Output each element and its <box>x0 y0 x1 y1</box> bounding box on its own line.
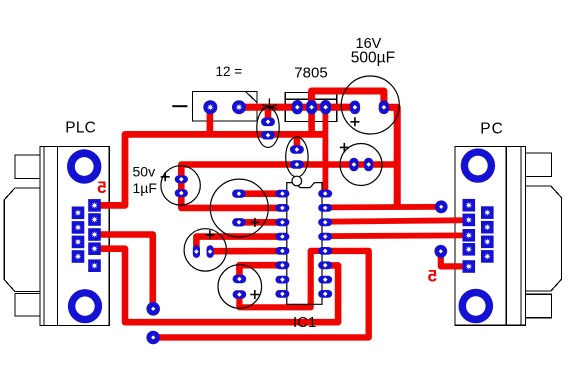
capacitor C3 right pad <box>364 158 373 172</box>
capacitor C5 top pad <box>175 175 188 183</box>
terminal block X1 12V outline <box>192 92 257 122</box>
connector J2 pad right 4 <box>481 250 494 263</box>
label 7805 <box>294 65 327 82</box>
capacitor C4 outline <box>218 265 262 309</box>
label 1uF <box>133 180 157 196</box>
connector J1 pad right 5 <box>88 259 101 272</box>
wire via B bottom route to IC1 pin5 right <box>153 251 369 338</box>
connector J1 pad left 4 <box>72 250 85 263</box>
capacitor C5 50v 1uF outline <box>161 166 200 205</box>
connector J2 pad left 5 <box>463 260 476 273</box>
wire C2 top pad to IC1 pin1 left <box>239 190 283 197</box>
diode D2 top pad <box>290 145 304 154</box>
IC U1 pin pad left 3 <box>275 218 289 226</box>
capacitor C2 outline <box>210 179 268 237</box>
capacitor C1 plus pad <box>379 101 389 115</box>
capacitor C1 minus pad <box>350 101 360 115</box>
connector J1 pad right 4 <box>88 242 101 255</box>
regulator U2 pin 2 pad <box>306 100 317 114</box>
wire C6 left pad to IC1 pin4 left <box>196 237 282 252</box>
wire C4 top pad to IC1 pin6 left <box>239 265 282 279</box>
label pin5 PLC mirrored <box>97 178 106 197</box>
wire D1 anode stub <box>265 107 272 122</box>
connector J2 PC D-shell <box>526 186 562 291</box>
svg-text:7805: 7805 <box>294 65 327 82</box>
wire C1 right pad to right vertical to via <box>384 107 397 206</box>
via C near PC <box>435 200 448 213</box>
wire C5 vertical with y164 run to C3 and y208 run to IC1 pin2 left <box>181 165 397 208</box>
capacitor C3 left pad <box>349 158 358 172</box>
capacitor C2 plus mark <box>250 218 259 227</box>
label PC <box>480 121 504 138</box>
connector J1 pad left 1 <box>72 207 85 220</box>
svg-text:5: 5 <box>428 267 437 286</box>
wire terminal pad2 to 7805 pins to C1 left pad <box>239 104 355 111</box>
connector J2 PC mounting tab bottom-right <box>526 294 552 318</box>
svg-text:5: 5 <box>97 178 106 197</box>
wire via D to PC pad5 <box>441 251 469 266</box>
diode D2 outline <box>286 137 308 177</box>
capacitor C3 plus mark <box>340 143 349 152</box>
IC U1 pin pad left 6 <box>275 261 289 269</box>
wire PLC pad1 to +12V bus to 7805 pin3 <box>95 134 326 205</box>
regulator U2 pin 1 pad <box>292 100 303 114</box>
capacitor C5 bottom pad <box>175 189 188 197</box>
wire IC1 pin3 right to PC pad2 <box>325 220 469 222</box>
wire terminal pad1 down to bus <box>207 107 214 134</box>
IC U1 pin pad left 2 <box>275 204 289 212</box>
diode D1 bottom pad <box>261 131 275 140</box>
regulator U2 7805 outline <box>285 92 337 121</box>
regulator U2 pin 3 pad <box>320 100 331 114</box>
wire IC1 pin2 right to via C <box>325 204 441 210</box>
svg-text:PC: PC <box>480 121 504 138</box>
via B <box>146 331 160 345</box>
capacitor C2 bottom pad <box>232 218 246 226</box>
IC U1 pin pad right 1 <box>318 190 332 198</box>
IC U1 pin pad left 4 <box>275 233 289 241</box>
connector J2 pad right 1 <box>481 206 494 219</box>
connector J2 pad right 2 <box>481 221 494 234</box>
IC U1 body outline <box>287 176 322 304</box>
wire C6 right pad to IC1 pin5 left <box>210 248 282 255</box>
mounting hole PLC top <box>67 149 101 183</box>
connector J1 pad left 2 <box>72 221 85 234</box>
label minus supply <box>172 105 187 107</box>
connector J2 pad left 2 <box>463 214 476 227</box>
mounting hole PLC bottom <box>68 289 102 323</box>
connector J1 PLC body <box>40 146 109 325</box>
diode D1 polarity cross <box>262 99 277 111</box>
label PLC <box>65 119 96 136</box>
IC U1 pin pad left 5 <box>275 247 289 255</box>
label pin5 PC mirrored <box>428 267 437 286</box>
connector J2 PC body <box>455 147 525 326</box>
connector J1 pad left 3 <box>72 236 85 249</box>
connector J2 pad right 3 <box>481 236 494 249</box>
via A <box>146 302 160 316</box>
connector J1 pad right 3 <box>88 228 101 241</box>
diode D2 bottom pad <box>290 160 304 169</box>
svg-text:PLC: PLC <box>65 119 96 136</box>
IC U1 pin pad left 7 <box>275 276 289 284</box>
capacitor C6 left pad <box>193 245 200 258</box>
IC U1 pin pad right 6 <box>318 261 332 269</box>
mounting hole PC top <box>461 148 495 182</box>
svg-text:IC1: IC1 <box>293 314 316 331</box>
terminal X1 pad 1 <box>203 100 217 114</box>
capacitor C3 outline <box>340 144 382 186</box>
diode D1 outline <box>257 108 279 148</box>
wire 7805 pin2 over top to C1 right pad <box>312 91 384 107</box>
wire C2 bottom pad to IC1 pin3 left <box>239 219 283 226</box>
svg-text:1µF: 1µF <box>133 180 157 196</box>
label 16V <box>356 36 382 52</box>
wire C4 bottom pad under IC1 to pin5 right <box>239 251 325 307</box>
connector J2 pad left 1 <box>463 199 476 212</box>
capacitor C6 right pad <box>207 245 214 258</box>
svg-text:500µF: 500µF <box>351 50 395 67</box>
wire PLC pad4 long bottom route to IC1 pin6 right <box>95 249 339 323</box>
svg-text:12 =: 12 = <box>216 64 243 79</box>
connector J1 pad right 1 <box>88 199 101 212</box>
diode D1 top pad <box>261 118 275 127</box>
capacitor C4 bottom pad <box>233 290 247 298</box>
label 12 = <box>216 64 243 79</box>
label 500uF <box>351 50 395 67</box>
via D near PC <box>434 245 447 258</box>
IC U1 pin pad right 7 <box>318 276 332 284</box>
mounting hole PC bottom <box>459 289 494 324</box>
IC U1 pin pad right 4 <box>318 233 332 241</box>
connector J2 pad left 4 <box>463 243 476 256</box>
IC U1 pin pad left 8 <box>275 290 289 298</box>
capacitor C5 plus mark <box>161 172 170 181</box>
wire PLC pad3 down to via A <box>95 235 153 309</box>
capacitor C2 top pad <box>232 190 246 198</box>
connector J1 pad right 2 <box>88 213 101 226</box>
connector J2 pad left 3 <box>463 229 476 242</box>
wire 7805 pin3 vertical to IC1 pin1 right <box>322 107 328 193</box>
IC U1 pin pad right 5 <box>318 247 332 255</box>
terminal X1 pad 2 <box>232 100 246 114</box>
capacitor C4 plus mark <box>250 290 259 299</box>
IC U1 pin pad right 2 <box>318 204 332 212</box>
label 50v <box>133 163 156 179</box>
connector J1 PLC D-shell <box>4 188 40 292</box>
IC U1 pin pad right 3 <box>318 218 332 226</box>
capacitor C6 outline <box>184 229 226 271</box>
IC U1 pin pad right 8 <box>318 290 332 298</box>
connector J2 PC mounting tab top-right <box>526 153 552 177</box>
capacitor C1 16V 500uF outline <box>341 76 399 134</box>
capacitor C6 plus mark <box>205 230 214 239</box>
wire 7805 pin2 down to bus <box>308 107 315 134</box>
label IC1 <box>293 314 316 331</box>
connector J1 PLC mounting tab bottom-left <box>15 294 40 316</box>
svg-text:50v: 50v <box>133 163 156 179</box>
capacitor C1 plus mark <box>350 117 359 126</box>
wire IC1 pin4 right to PC pad3 <box>325 232 469 239</box>
wire D2 stub from bus <box>294 134 301 149</box>
capacitor C4 top pad <box>233 275 247 283</box>
connector J1 PLC mounting tab top-left <box>15 155 40 178</box>
IC U1 pin pad left 1 <box>275 190 289 198</box>
